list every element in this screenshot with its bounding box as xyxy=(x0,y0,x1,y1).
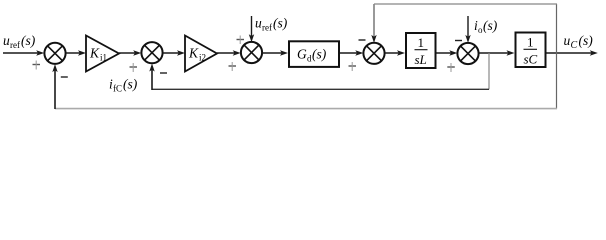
wire S5 to 1/sC xyxy=(479,52,509,54)
svg-text:(s): (s) xyxy=(273,16,288,31)
svg-text:fC: fC xyxy=(113,84,122,94)
svg-text:(s): (s) xyxy=(123,77,138,92)
svg-text:G: G xyxy=(297,47,307,62)
plus sign at S3 top input xyxy=(237,39,245,41)
svg-text:K: K xyxy=(188,46,199,61)
wire input to S1 xyxy=(3,52,38,54)
plus sign at S3 left input xyxy=(229,65,237,67)
svg-text:(s): (s) xyxy=(312,47,327,62)
minus sign at S1 bottom input xyxy=(61,76,68,78)
node i_o(s) label xyxy=(474,18,498,35)
wire 1/sL to S5 xyxy=(437,52,452,54)
svg-text:K: K xyxy=(89,46,100,61)
summing junction S5 xyxy=(457,43,478,64)
summing junction S3 xyxy=(241,42,262,63)
summing junction S4 xyxy=(363,43,384,64)
svg-text:(s): (s) xyxy=(483,18,498,33)
plus sign at S2 left input xyxy=(130,66,138,68)
wire i_o down into S5 xyxy=(467,16,469,37)
svg-text:1: 1 xyxy=(418,35,425,50)
wire S3 to Gd xyxy=(262,52,282,54)
block 1/sC xyxy=(516,33,546,68)
wire bottom feedback horizontal xyxy=(55,108,557,110)
block Gd(s) xyxy=(289,41,339,67)
svg-text:ref: ref xyxy=(10,40,20,50)
label G_d(s) xyxy=(297,47,327,64)
node u_ref(s) label above S3 xyxy=(255,16,288,33)
node u_C(s) output label xyxy=(564,33,594,51)
minus sign at S5 top input xyxy=(455,40,462,42)
plus sign at S5 left input xyxy=(447,66,455,68)
svg-text:i1: i1 xyxy=(100,52,107,62)
wire Gd to S4 xyxy=(340,52,357,54)
op-amp gain block T1 xyxy=(86,36,119,72)
summing junction S1 xyxy=(44,43,65,64)
svg-text:ref: ref xyxy=(262,23,272,33)
svg-text:sC: sC xyxy=(524,52,538,67)
svg-text:C: C xyxy=(571,40,578,51)
summing junction S2 xyxy=(141,42,162,63)
svg-text:sL: sL xyxy=(415,52,427,67)
label 1/sC fraction xyxy=(524,34,538,66)
wire right vertical tap from output xyxy=(556,4,558,109)
wire bottom feedback up into S1 xyxy=(54,70,56,109)
wire i_fC feedback up into S2 xyxy=(151,69,153,90)
block 1/sL xyxy=(406,33,436,68)
svg-text:(s): (s) xyxy=(21,33,36,48)
wire top feedback down into S4 xyxy=(373,4,375,37)
node u_ref(s) input label xyxy=(3,33,36,50)
plus sign at S4 left input xyxy=(349,65,357,67)
plus sign at S1 left input xyxy=(33,64,41,66)
svg-text:u: u xyxy=(3,33,10,48)
wire T2 to S3 xyxy=(217,52,235,54)
wire 1/sC to output xyxy=(547,52,592,54)
minus sign at S4 top input xyxy=(359,39,366,41)
wire top feedback horizontal xyxy=(374,3,557,5)
label K_i1 xyxy=(89,46,107,63)
svg-text:1: 1 xyxy=(527,34,534,49)
svg-text:u: u xyxy=(564,33,571,48)
wire u_ref down into S3 xyxy=(251,16,253,37)
wire S1 to T1 xyxy=(66,52,80,54)
node i_fC(s) label xyxy=(109,77,138,94)
minus sign at S2 bottom input xyxy=(160,72,167,74)
wire S2 to T2 xyxy=(163,52,179,54)
wire i_fC feedback horizontal xyxy=(152,88,489,90)
wire S4 to 1/sL xyxy=(385,52,399,54)
svg-text:u: u xyxy=(255,16,262,31)
svg-text:i2: i2 xyxy=(199,52,206,62)
svg-text:(s): (s) xyxy=(579,33,594,48)
wire i_fC tap vertical from node after S5 xyxy=(488,53,490,89)
label 1/sL fraction xyxy=(415,35,428,67)
wire T1 to S2 xyxy=(119,52,135,54)
label K_i2 xyxy=(188,46,206,63)
op-amp gain block T2 xyxy=(185,36,217,72)
